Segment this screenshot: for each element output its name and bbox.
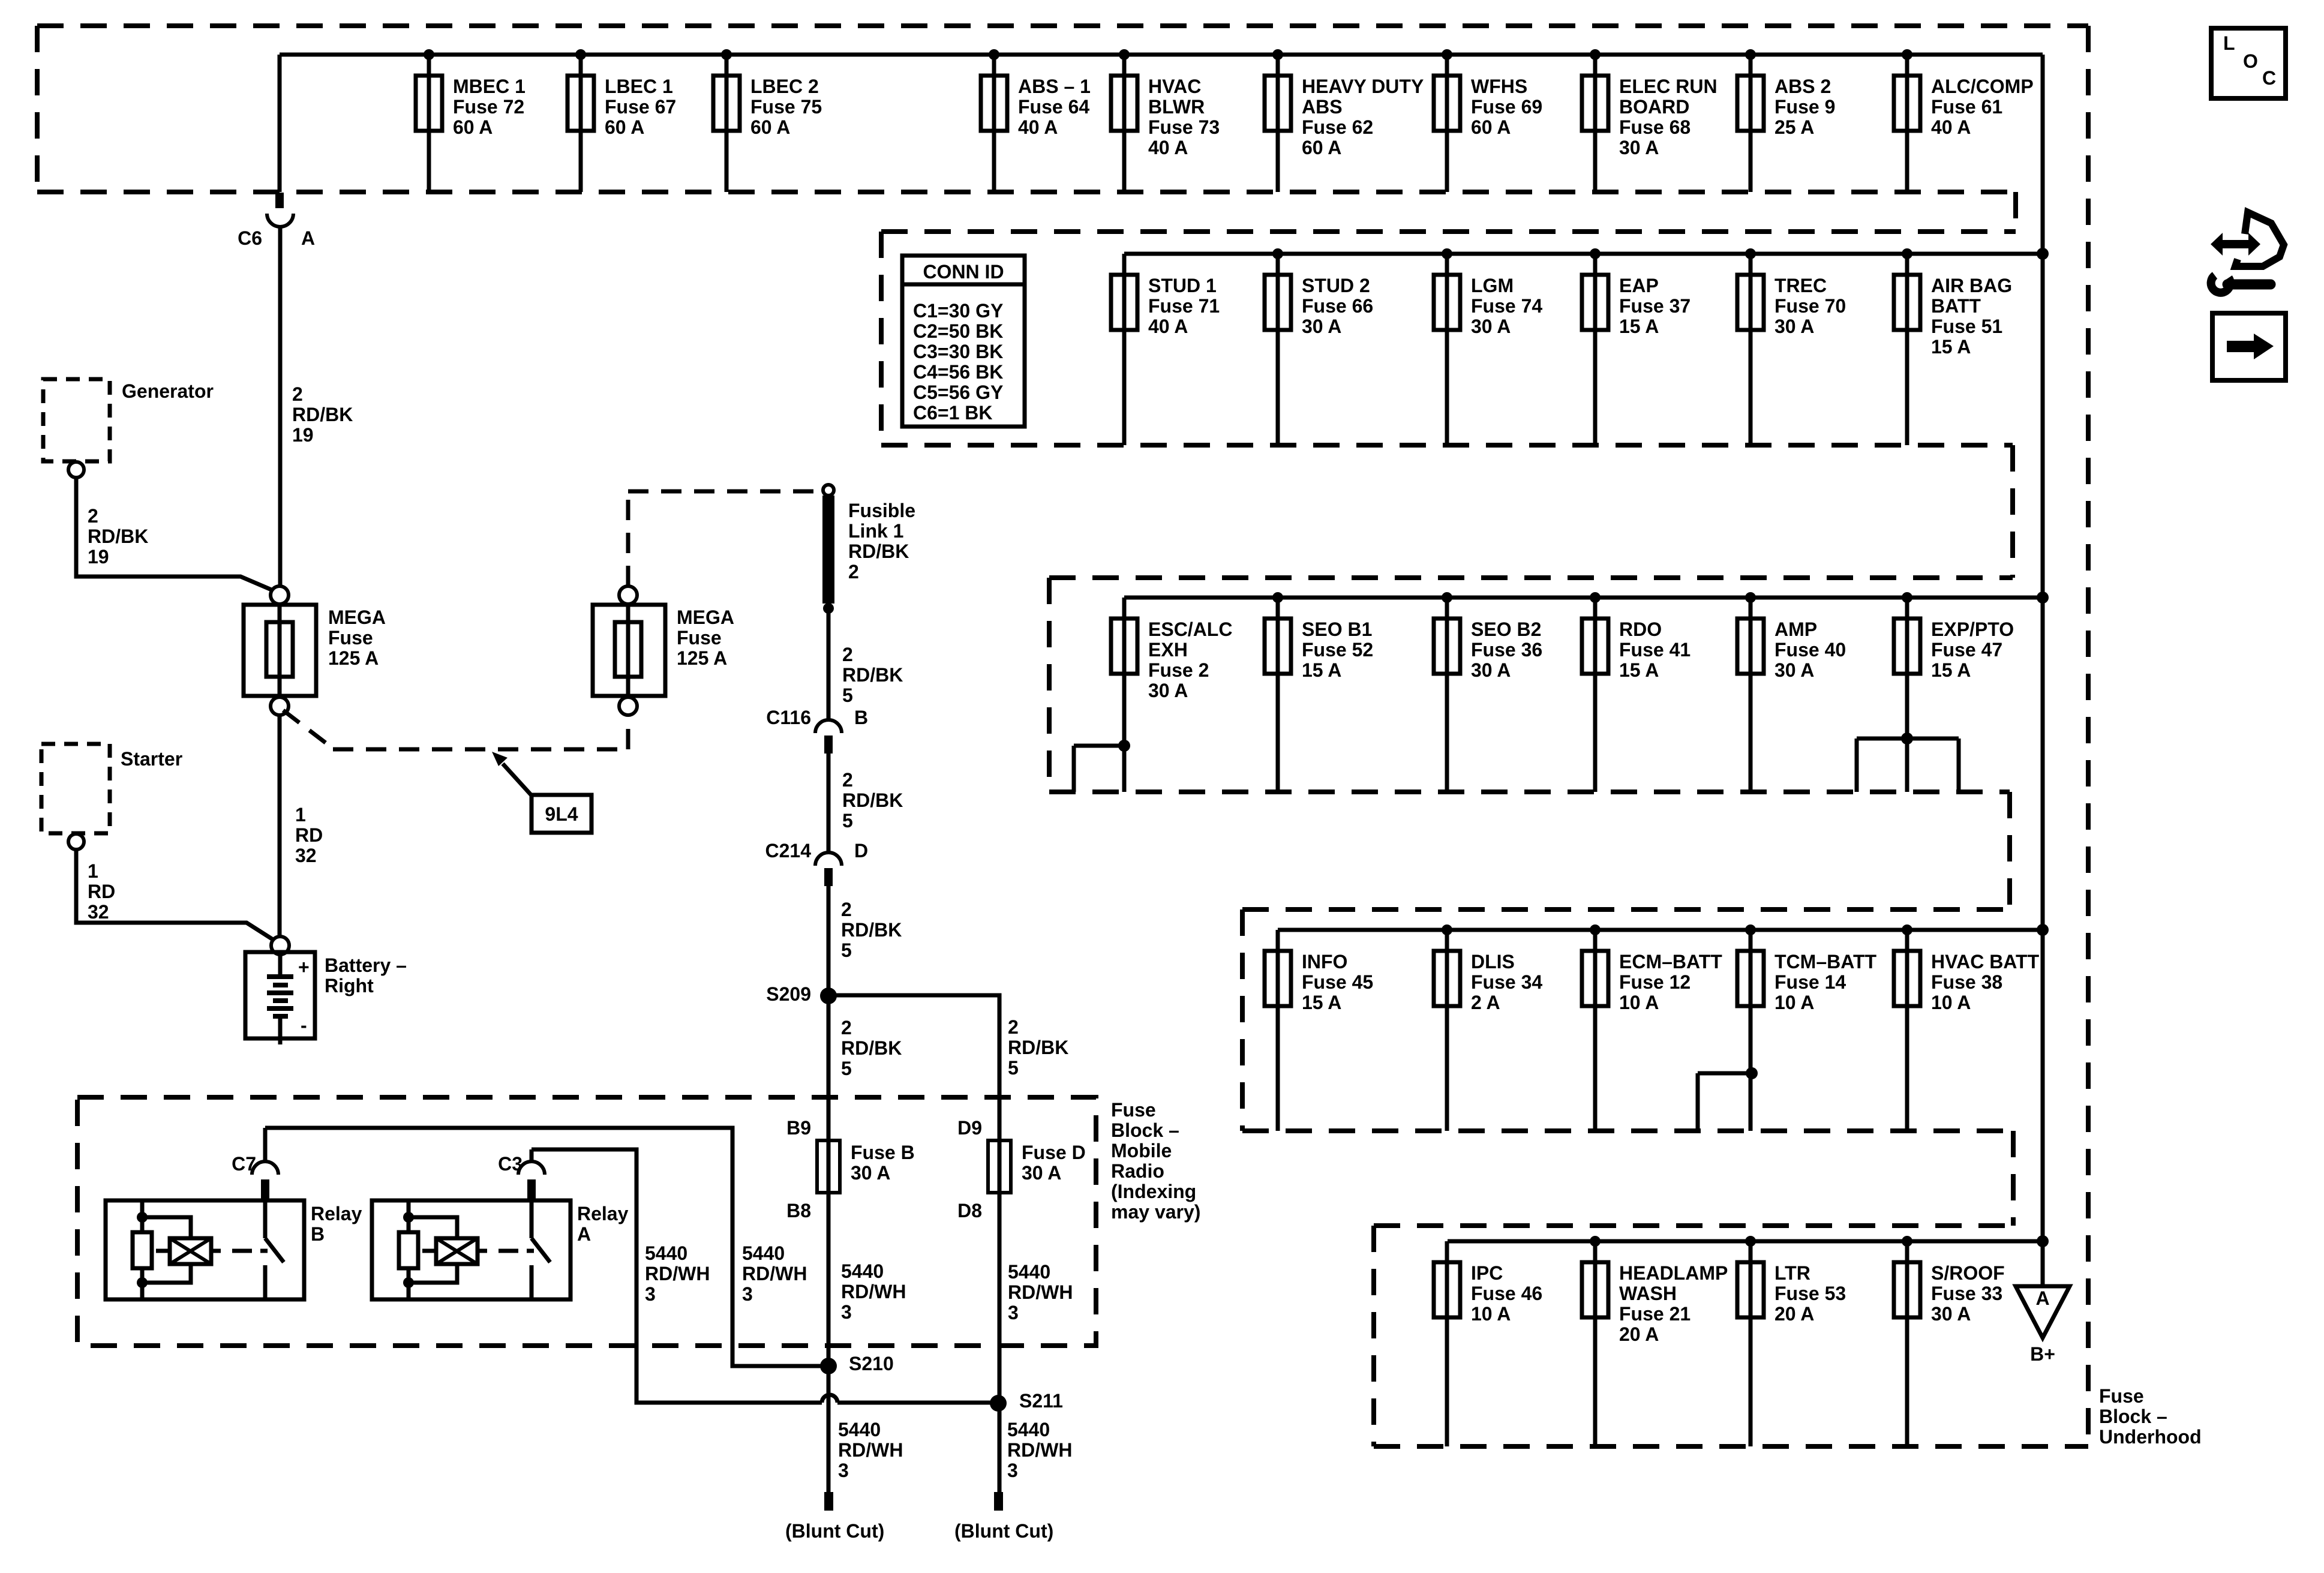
svg-text:2: 2 xyxy=(841,899,852,920)
svg-text:20 A: 20 A xyxy=(1619,1323,1659,1345)
row4 dashed left edge xyxy=(1240,909,1245,1131)
relay A coil xyxy=(436,1238,478,1264)
svg-text:10 A: 10 A xyxy=(1774,992,1814,1013)
svg-text:60 A: 60 A xyxy=(750,116,790,138)
svg-text:RD/WH: RD/WH xyxy=(742,1263,807,1284)
svg-text:Fuse: Fuse xyxy=(2099,1385,2144,1407)
svg-text:INFO: INFO xyxy=(1302,951,1347,972)
svg-text:Fuse 45: Fuse 45 xyxy=(1302,971,1373,993)
fuse EAP Fuse 37 xyxy=(1582,248,1691,445)
svg-text:3: 3 xyxy=(742,1283,753,1305)
svg-text:RD/WH: RD/WH xyxy=(841,1281,906,1302)
fuse block mobile radio dashed box xyxy=(77,1097,1096,1346)
fuse TCM-BATT Fuse 14 xyxy=(1737,924,1877,1131)
svg-text:15 A: 15 A xyxy=(1302,992,1341,1013)
svg-text:5440: 5440 xyxy=(742,1242,785,1264)
svg-text:TREC: TREC xyxy=(1774,275,1827,296)
CONN ID table xyxy=(902,256,1025,427)
svg-text:Fuse 71: Fuse 71 xyxy=(1148,295,1220,317)
row4-row5 dashed step xyxy=(2011,1131,2016,1226)
svg-text:Fuse 47: Fuse 47 xyxy=(1931,639,2002,661)
svg-text:30 A: 30 A xyxy=(1774,316,1814,337)
splice S211 xyxy=(990,1395,1007,1412)
row1 dashed bottom edge xyxy=(37,190,2016,194)
battery - right xyxy=(245,936,407,1044)
wire 2 RD/BK 5 S209 down to fuse B xyxy=(827,996,831,1492)
svg-text:B: B xyxy=(311,1223,325,1245)
svg-text:5: 5 xyxy=(1008,1057,1019,1079)
svg-text:Relay: Relay xyxy=(311,1203,362,1224)
fuse LBEC 1 Fuse 67 xyxy=(568,49,676,192)
svg-text:O: O xyxy=(2243,50,2258,72)
relay A coil circuit xyxy=(407,1200,411,1299)
svg-text:2: 2 xyxy=(842,644,853,665)
splice S209 xyxy=(820,987,837,1004)
svg-text:Fuse 53: Fuse 53 xyxy=(1774,1283,1846,1304)
svg-text:60 A: 60 A xyxy=(1471,116,1511,138)
svg-text:3: 3 xyxy=(1008,1302,1019,1323)
svg-text:125 A: 125 A xyxy=(328,647,379,669)
connector C7 stub wire xyxy=(263,1128,268,1161)
fuse HVAC BLWR Fuse 73 xyxy=(1111,49,1220,192)
svg-text:SEO B2: SEO B2 xyxy=(1471,619,1541,640)
row2-row3 dashed step xyxy=(2010,445,2015,578)
svg-text:EXH: EXH xyxy=(1148,639,1188,661)
svg-text:C214: C214 xyxy=(765,840,812,861)
svg-text:2 A: 2 A xyxy=(1471,992,1500,1013)
svg-text:C: C xyxy=(2262,67,2276,89)
bus bar row4 xyxy=(1278,928,2043,932)
fuse SEO B1 Fuse 52 xyxy=(1265,592,1373,792)
svg-text:Fuse 64: Fuse 64 xyxy=(1018,96,1089,118)
svg-text:B+: B+ xyxy=(2030,1343,2055,1365)
svg-text:Block –: Block – xyxy=(1111,1119,1179,1141)
svg-text:ESC/ALC: ESC/ALC xyxy=(1148,619,1232,640)
svg-text:HVAC BATT: HVAC BATT xyxy=(1931,951,2040,972)
svg-text:Fuse 12: Fuse 12 xyxy=(1619,971,1691,993)
row4 dashed bottom edge xyxy=(1242,1128,2013,1133)
fuse IPC Fuse 46 xyxy=(1434,1241,1542,1446)
fuse S/ROOF Fuse 33 xyxy=(1894,1236,2005,1446)
svg-text:5440: 5440 xyxy=(1007,1419,1050,1440)
svg-text:(Blunt Cut): (Blunt Cut) xyxy=(954,1520,1053,1542)
svg-text:Fuse: Fuse xyxy=(328,627,373,649)
svg-text:RD/WH: RD/WH xyxy=(838,1439,903,1461)
fuse B 30 A xyxy=(786,1117,915,1221)
svg-text:Fuse 51: Fuse 51 xyxy=(1931,316,2002,337)
svg-text:RD/BK: RD/BK xyxy=(841,919,902,941)
svg-text:Fuse B: Fuse B xyxy=(851,1142,915,1163)
connector outline hook icon xyxy=(2235,212,2284,266)
svg-text:D9: D9 xyxy=(957,1117,982,1139)
forward arrow box icon xyxy=(2212,313,2286,380)
svg-text:S211: S211 xyxy=(1019,1390,1063,1412)
connector C214 pin xyxy=(824,868,833,886)
svg-text:Fuse 73: Fuse 73 xyxy=(1148,116,1220,138)
svg-text:C3: C3 xyxy=(498,1153,523,1175)
svg-text:Fuse 9: Fuse 9 xyxy=(1774,96,1835,118)
svg-text:C4=56 BK: C4=56 BK xyxy=(913,361,1003,383)
relay B switch xyxy=(263,1200,268,1238)
row5 dashed left edge xyxy=(1371,1226,1376,1446)
svg-text:3: 3 xyxy=(645,1283,656,1305)
svg-text:5: 5 xyxy=(842,810,853,831)
svg-text:Fuse 74: Fuse 74 xyxy=(1471,295,1542,317)
svg-text:2: 2 xyxy=(842,769,853,791)
svg-text:BOARD: BOARD xyxy=(1619,96,1689,118)
ESC/ALC EXH second terminal staple xyxy=(1118,740,1130,752)
svg-text:Fuse 46: Fuse 46 xyxy=(1471,1283,1542,1304)
svg-text:C7: C7 xyxy=(232,1153,256,1175)
svg-text:Fuse 14: Fuse 14 xyxy=(1774,971,1846,993)
svg-text:HVAC: HVAC xyxy=(1148,76,1201,97)
svg-text:2: 2 xyxy=(1008,1016,1019,1038)
svg-text:B8: B8 xyxy=(786,1200,811,1221)
svg-text:125 A: 125 A xyxy=(677,647,727,669)
starter dashed box xyxy=(41,744,110,833)
svg-text:TCM–BATT: TCM–BATT xyxy=(1774,951,1877,972)
dashed wire MEGA fuse right to fusible link xyxy=(626,491,630,586)
svg-text:9L4: 9L4 xyxy=(545,803,578,825)
svg-text:30 A: 30 A xyxy=(1471,316,1511,337)
bus bar row2 xyxy=(1124,252,2043,256)
svg-text:3: 3 xyxy=(838,1460,849,1481)
bus bar row5 xyxy=(1448,1239,2043,1244)
row4 dashed top edge xyxy=(1242,907,2010,912)
fusible link 1 terminal ring xyxy=(823,485,834,496)
svg-text:ABS – 1: ABS – 1 xyxy=(1018,76,1091,97)
svg-text:+: + xyxy=(298,956,310,978)
fuse HEAVY DUTY ABS Fuse 62 xyxy=(1265,49,1424,192)
svg-text:Fuse 38: Fuse 38 xyxy=(1931,971,2002,993)
svg-text:Fuse 62: Fuse 62 xyxy=(1302,116,1373,138)
relay A box xyxy=(372,1200,571,1299)
svg-text:10 A: 10 A xyxy=(1931,992,1971,1013)
wire 2 RD/BK 5 S209 to fuse D branch xyxy=(828,995,999,1140)
svg-text:RDO: RDO xyxy=(1619,619,1662,640)
svg-text:Fuse 36: Fuse 36 xyxy=(1471,639,1542,661)
wire 2 RD/BK 19 from generator xyxy=(76,478,274,591)
svg-text:60 A: 60 A xyxy=(1302,137,1341,158)
svg-text:15 A: 15 A xyxy=(1302,659,1341,681)
svg-text:STUD 1: STUD 1 xyxy=(1148,275,1217,296)
svg-text:BLWR: BLWR xyxy=(1148,96,1205,118)
wire 2 RD/BK 5 C214 to S209 xyxy=(827,886,831,996)
feeder junction dots xyxy=(2037,248,2049,260)
fuse HEADLAMP WASH Fuse 21 xyxy=(1582,1236,1728,1446)
generator terminal ring xyxy=(68,462,84,478)
9L4 circuit reference box xyxy=(532,795,591,833)
fuse HVAC BATT Fuse 38 xyxy=(1894,924,2040,1131)
svg-text:C1=30 GY: C1=30 GY xyxy=(913,300,1003,322)
svg-text:40 A: 40 A xyxy=(1148,137,1188,158)
svg-text:MEGA: MEGA xyxy=(677,607,734,628)
svg-text:5: 5 xyxy=(842,685,853,706)
svg-text:WASH: WASH xyxy=(1619,1283,1677,1304)
svg-text:MBEC 1: MBEC 1 xyxy=(453,76,526,97)
svg-text:C6: C6 xyxy=(238,227,262,249)
svg-text:15 A: 15 A xyxy=(1931,336,1971,358)
svg-text:30 A: 30 A xyxy=(1471,659,1511,681)
connector C116 pin xyxy=(824,736,833,754)
svg-text:Fuse 66: Fuse 66 xyxy=(1302,295,1373,317)
relay A switch xyxy=(530,1200,534,1238)
fuse RDO Fuse 41 xyxy=(1582,592,1691,792)
svg-text:2: 2 xyxy=(848,561,859,583)
svg-text:CONN ID: CONN ID xyxy=(923,261,1004,283)
svg-text:40 A: 40 A xyxy=(1148,316,1188,337)
svg-text:(Blunt Cut): (Blunt Cut) xyxy=(785,1520,884,1542)
fuse LTR Fuse 53 xyxy=(1737,1236,1846,1446)
svg-text:B: B xyxy=(854,707,868,728)
fuse block underhood dashed outline top edge xyxy=(37,23,2088,28)
svg-text:5440: 5440 xyxy=(838,1419,881,1440)
svg-text:C116: C116 xyxy=(766,707,811,728)
connector C214 cup xyxy=(815,852,842,866)
svg-text:ABS: ABS xyxy=(1302,96,1343,118)
row3 dashed top edge xyxy=(1049,575,2013,580)
blunt cut end fuse D wire xyxy=(994,1492,1003,1511)
svg-text:5: 5 xyxy=(841,939,852,961)
svg-text:LGM: LGM xyxy=(1471,275,1514,296)
svg-text:30 A: 30 A xyxy=(851,1162,890,1184)
svg-text:RD: RD xyxy=(295,824,323,846)
wire 2 RD/BK 5 C116 to C214 xyxy=(827,754,831,852)
svg-text:ALC/COMP: ALC/COMP xyxy=(1931,76,2034,97)
svg-text:15 A: 15 A xyxy=(1619,316,1659,337)
fuse EXP/PTO Fuse 47 xyxy=(1894,592,2014,792)
fusible link bottom dot xyxy=(823,603,834,614)
svg-text:C2=50 BK: C2=50 BK xyxy=(913,320,1003,342)
fuse AIR BAG BATT Fuse 51 xyxy=(1894,248,2012,445)
svg-text:EXP/PTO: EXP/PTO xyxy=(1931,619,2014,640)
svg-text:HEAVY DUTY: HEAVY DUTY xyxy=(1302,76,1424,97)
svg-text:RD/BK: RD/BK xyxy=(842,789,903,811)
svg-text:B9: B9 xyxy=(786,1117,811,1139)
row5 dashed top edge xyxy=(1374,1223,2013,1228)
svg-text:Fuse 70: Fuse 70 xyxy=(1774,295,1846,317)
fuse TREC Fuse 70 xyxy=(1737,248,1846,445)
svg-text:A: A xyxy=(577,1223,591,1245)
row3 dashed bottom edge xyxy=(1049,789,2010,794)
svg-text:RD/BK: RD/BK xyxy=(292,404,353,425)
dashed wire MEGA fuse left to MEGA fuse right xyxy=(283,710,334,749)
svg-text:S/ROOF: S/ROOF xyxy=(1931,1262,2005,1284)
svg-text:(Indexing: (Indexing xyxy=(1111,1181,1196,1202)
svg-text:D: D xyxy=(854,840,868,861)
svg-text:10 A: 10 A xyxy=(1471,1303,1511,1325)
wire C6 drop from bus row1 xyxy=(278,55,282,192)
svg-text:Block –: Block – xyxy=(2099,1406,2167,1427)
svg-text:BATT: BATT xyxy=(1931,295,1981,317)
svg-text:ABS 2: ABS 2 xyxy=(1774,76,1831,97)
row3-row4 dashed step xyxy=(2007,792,2012,909)
svg-text:Link 1: Link 1 xyxy=(848,520,903,542)
svg-text:5440: 5440 xyxy=(1008,1261,1050,1283)
svg-text:30 A: 30 A xyxy=(1774,659,1814,681)
wire 2 RD/BK 5 link to C116 xyxy=(827,608,831,720)
connector C6 cup xyxy=(267,214,293,227)
fuse ABS 2 Fuse 9 xyxy=(1737,49,1835,192)
svg-text:Battery –: Battery – xyxy=(325,954,407,976)
fuse ABS - 1 Fuse 64 xyxy=(981,49,1091,192)
svg-text:Fuse: Fuse xyxy=(677,627,722,649)
svg-text:ECM–BATT: ECM–BATT xyxy=(1619,951,1722,972)
relay A actuation dashed link xyxy=(499,1249,534,1253)
svg-text:Relay: Relay xyxy=(577,1203,629,1224)
fuse MBEC 1 Fuse 72 xyxy=(416,49,526,192)
svg-text:Fuse 21: Fuse 21 xyxy=(1619,1303,1691,1325)
svg-text:5440: 5440 xyxy=(841,1260,884,1282)
svg-text:40 A: 40 A xyxy=(1018,116,1058,138)
svg-text:Fuse 68: Fuse 68 xyxy=(1619,116,1691,138)
MEGA fuse left 125 A xyxy=(244,586,386,715)
svg-text:Fuse 75: Fuse 75 xyxy=(750,96,822,118)
svg-text:2: 2 xyxy=(292,383,303,405)
svg-text:S209: S209 xyxy=(766,983,811,1005)
fuse SEO B2 Fuse 36 xyxy=(1434,592,1542,792)
wrench icon xyxy=(2211,275,2230,293)
fuse ECM-BATT Fuse 12 xyxy=(1582,924,1722,1131)
wire S211 horizontal with hop over fuse B wire xyxy=(822,1395,837,1403)
generator dashed box xyxy=(43,379,110,461)
svg-text:10 A: 10 A xyxy=(1619,992,1659,1013)
svg-text:Mobile: Mobile xyxy=(1111,1140,1172,1161)
TCM-BATT second terminal staple xyxy=(1746,1067,1758,1079)
svg-text:RD/BK: RD/BK xyxy=(88,526,148,547)
row2 dashed top edge xyxy=(881,229,2016,234)
svg-text:Fuse 2: Fuse 2 xyxy=(1148,659,1209,681)
svg-text:RD/BK: RD/BK xyxy=(841,1037,902,1059)
svg-text:40 A: 40 A xyxy=(1931,116,1971,138)
connector C7 pin xyxy=(261,1179,269,1200)
fuse ELEC RUN BOARD Fuse 68 xyxy=(1582,49,1718,192)
fuse block underhood dashed outline left edge row1 xyxy=(35,26,40,192)
svg-text:30 A: 30 A xyxy=(1022,1162,1061,1184)
svg-text:60 A: 60 A xyxy=(453,116,493,138)
svg-text:30 A: 30 A xyxy=(1931,1303,1971,1325)
svg-text:Underhood: Underhood xyxy=(2099,1426,2202,1448)
svg-text:Fuse 69: Fuse 69 xyxy=(1471,96,1542,118)
svg-text:may vary): may vary) xyxy=(1111,1201,1200,1223)
svg-text:IPC: IPC xyxy=(1471,1262,1503,1284)
svg-text:5440: 5440 xyxy=(645,1242,687,1264)
fuse DLIS Fuse 34 xyxy=(1434,924,1542,1131)
fuse AMP Fuse 40 xyxy=(1737,592,1846,792)
fusible link 1 RD/BK 2 thick element xyxy=(822,496,834,604)
svg-text:LBEC 2: LBEC 2 xyxy=(750,76,819,97)
svg-text:MEGA: MEGA xyxy=(328,607,386,628)
svg-text:AIR BAG: AIR BAG xyxy=(1931,275,2012,296)
svg-text:WFHS: WFHS xyxy=(1471,76,1527,97)
svg-text:RD/BK: RD/BK xyxy=(1008,1037,1068,1058)
svg-text:19: 19 xyxy=(88,546,109,568)
svg-text:A: A xyxy=(301,227,315,249)
row5 dashed bottom edge xyxy=(1374,1444,2088,1449)
svg-text:Right: Right xyxy=(325,975,374,996)
connector C3 stub wire xyxy=(530,1149,534,1161)
wire 2 RD/BK 19 from C6 to MEGA fuse xyxy=(278,227,283,586)
fuse D 30 A xyxy=(957,1117,1086,1492)
EXP/PTO terminal staple xyxy=(1901,733,1913,745)
svg-text:15 A: 15 A xyxy=(1931,659,1971,681)
svg-text:HEADLAMP: HEADLAMP xyxy=(1619,1262,1728,1284)
svg-text:1: 1 xyxy=(295,804,306,825)
svg-text:30 A: 30 A xyxy=(1302,316,1341,337)
blunt cut end fuse B wire xyxy=(824,1492,833,1511)
svg-text:C3=30 BK: C3=30 BK xyxy=(913,341,1003,362)
row2 dashed bottom edge xyxy=(881,443,2013,448)
svg-text:Fuse 52: Fuse 52 xyxy=(1302,639,1373,661)
fuse STUD 1 Fuse 71 xyxy=(1111,254,1220,445)
svg-text:RD/BK: RD/BK xyxy=(848,541,909,562)
svg-text:19: 19 xyxy=(292,424,314,446)
svg-text:Fuse 41: Fuse 41 xyxy=(1619,639,1691,661)
svg-text:L: L xyxy=(2223,32,2235,54)
svg-text:Fuse 37: Fuse 37 xyxy=(1619,295,1691,317)
svg-text:20 A: 20 A xyxy=(1774,1303,1814,1325)
svg-text:25 A: 25 A xyxy=(1774,116,1814,138)
relay B box xyxy=(106,1200,304,1299)
svg-text:C6=1 BK: C6=1 BK xyxy=(913,402,993,424)
wire 1 RD 32 from MEGA fuse to battery xyxy=(278,715,282,936)
svg-text:2: 2 xyxy=(841,1017,852,1038)
svg-text:3: 3 xyxy=(1007,1460,1018,1481)
svg-text:2: 2 xyxy=(88,505,98,527)
feeder wire right side xyxy=(2041,55,2045,1286)
fuse WFHS Fuse 69 xyxy=(1434,49,1542,192)
9L4 arrow xyxy=(503,764,533,797)
svg-text:D8: D8 xyxy=(957,1200,982,1221)
connector C7 cup xyxy=(252,1161,278,1175)
svg-text:RD/BK: RD/BK xyxy=(842,664,903,686)
svg-text:LTR: LTR xyxy=(1774,1262,1810,1284)
svg-text:Fuse 72: Fuse 72 xyxy=(453,96,524,118)
svg-text:Fuse 67: Fuse 67 xyxy=(605,96,676,118)
wire relay A feed from S211 xyxy=(532,1149,822,1403)
svg-text:EAP: EAP xyxy=(1619,275,1659,296)
connector C116 cup xyxy=(815,720,842,733)
svg-text:STUD 2: STUD 2 xyxy=(1302,275,1370,296)
svg-text:Fusible: Fusible xyxy=(848,500,915,521)
splice S210 xyxy=(820,1358,837,1374)
svg-text:A: A xyxy=(2035,1287,2049,1309)
fuse INFO Fuse 45 xyxy=(1265,930,1373,1131)
bus bar row3 xyxy=(1124,596,2043,600)
starter terminal ring xyxy=(68,834,84,849)
fuse ESC/ALC EXH Fuse 2 xyxy=(1111,598,1232,792)
MEGA fuse right 125 A xyxy=(593,586,734,715)
row3 dashed left edge xyxy=(1047,578,1052,792)
svg-text:5: 5 xyxy=(841,1058,852,1079)
svg-text:ELEC RUN: ELEC RUN xyxy=(1619,76,1718,97)
bus bar row1 xyxy=(280,53,2043,57)
svg-text:Fuse 33: Fuse 33 xyxy=(1931,1283,2002,1304)
svg-text:1: 1 xyxy=(88,860,98,882)
svg-text:Fuse 34: Fuse 34 xyxy=(1471,971,1542,993)
svg-text:32: 32 xyxy=(88,901,109,923)
connector C6 pin xyxy=(275,193,284,208)
svg-text:30 A: 30 A xyxy=(1619,137,1659,158)
svg-text:Fuse 61: Fuse 61 xyxy=(1931,96,2002,118)
svg-text:RD/WH: RD/WH xyxy=(1007,1439,1072,1461)
svg-text:RD: RD xyxy=(88,881,115,902)
row2 dashed left edge xyxy=(879,232,884,445)
svg-text:Fuse: Fuse xyxy=(1111,1099,1156,1121)
connector view double arrow icon xyxy=(2211,233,2260,256)
svg-text:Starter: Starter xyxy=(121,748,182,770)
svg-text:LBEC 1: LBEC 1 xyxy=(605,76,673,97)
